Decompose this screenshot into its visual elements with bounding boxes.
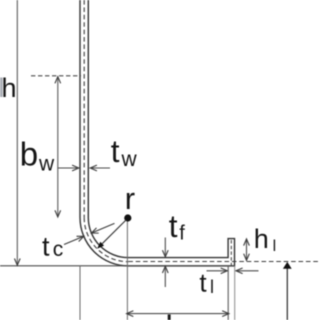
svg-text:b: b <box>166 309 184 320</box>
svg-text:l: l <box>273 238 277 255</box>
svg-text:w: w <box>121 148 138 171</box>
corner centerline arc (dashed) <box>84 218 128 262</box>
extension line lip right face down <box>234 266 236 320</box>
t_l left arrow <box>207 270 227 272</box>
bottom dimension left arrowhead <box>127 311 134 317</box>
h dimension line <box>16 0 18 265</box>
svg-text:t: t <box>42 232 50 262</box>
b_w bottom arrowhead <box>55 210 61 217</box>
svg-text:t: t <box>169 208 178 244</box>
flange centerline (dashed, extends to right edge) <box>128 261 320 263</box>
svg-text:l: l <box>210 277 214 297</box>
svg-text:b: b <box>20 136 38 173</box>
t_l right arrow <box>237 270 259 272</box>
svg-text:r: r <box>125 181 135 216</box>
h dimension bottom arrowhead <box>14 258 20 265</box>
svg-text:h: h <box>2 73 17 103</box>
extension line lip left face down <box>227 266 229 320</box>
t_w right arrow <box>92 167 111 169</box>
lip centerline (dashed) <box>230 240 232 266</box>
extension line web outer face down <box>79 266 81 320</box>
svg-text:w: w <box>38 153 55 176</box>
bottom dimension line <box>127 313 228 315</box>
b_w top arrowhead <box>55 77 61 84</box>
r filled arrowhead <box>97 242 104 249</box>
radius center dot <box>124 214 131 221</box>
r leader line <box>102 220 126 244</box>
t_w left arrow <box>58 167 77 169</box>
svg-text:t: t <box>199 268 207 298</box>
extension line flange flat start down <box>126 222 128 320</box>
t_c inner leader line <box>93 223 115 232</box>
t_f upper arrow <box>164 238 166 257</box>
bottom dimension right arrowhead <box>222 311 229 317</box>
t_c leader line from label <box>64 237 83 245</box>
t_c outer-face arrowhead <box>77 236 84 241</box>
svg-text:c: c <box>53 238 64 261</box>
cropped glyph fragment at left edge <box>0 78 3 98</box>
t_f lower arrow <box>164 267 166 288</box>
t_c inner-face arrowhead <box>91 228 98 233</box>
svg-text:t: t <box>111 133 120 169</box>
overall height dimension line with filled up arrow <box>286 267 288 320</box>
h_l dimension double arrow <box>246 239 248 260</box>
baseline (flange bottom face extended to left edge) <box>0 265 235 267</box>
b_w dimension line <box>57 77 59 217</box>
svg-text:f: f <box>179 222 185 244</box>
profile outline (web, corner radius, flange, lip) <box>80 0 235 266</box>
b_w top extension line (dashed) <box>31 75 81 77</box>
svg-text:h: h <box>254 224 269 254</box>
web centerline (dashed) <box>83 0 85 218</box>
